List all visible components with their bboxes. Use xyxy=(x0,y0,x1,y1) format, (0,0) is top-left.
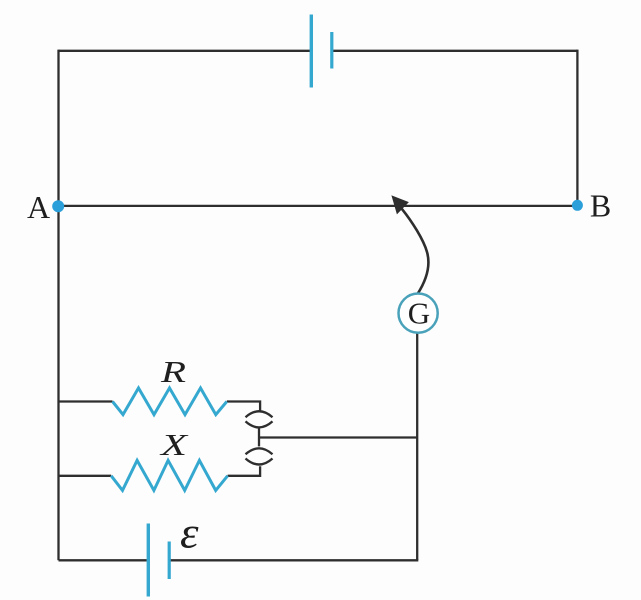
wire between keys K1-K2 xyxy=(258,428,260,446)
key K2 contact bottom arc xyxy=(246,459,273,465)
wire X branch left xyxy=(59,475,112,477)
battery top: short plate (-) xyxy=(330,32,333,69)
node A dot xyxy=(52,200,64,212)
key K1 contact top arc xyxy=(246,411,273,417)
battery top: long plate (+) xyxy=(310,15,313,88)
svg-text:B: B xyxy=(590,188,611,224)
wire bottom-right (battery to corner) xyxy=(171,559,419,561)
jockey wire curve xyxy=(402,209,429,294)
resistor X zigzag xyxy=(111,460,227,490)
battery E (bottom): long plate (+) xyxy=(147,524,150,597)
svg-text:A: A xyxy=(27,189,50,225)
galvanometer G circle xyxy=(399,294,438,333)
svg-text:G: G xyxy=(408,296,430,331)
battery E (bottom): short plate (-) xyxy=(168,542,171,580)
svg-text:ε: ε xyxy=(180,508,199,557)
wire left vertical (A branch down) xyxy=(57,50,59,561)
wire bottom-left (to battery) xyxy=(59,559,147,561)
wire right vertical (to B) xyxy=(576,50,578,201)
wire A-B potentiometer xyxy=(59,205,578,207)
node B dot xyxy=(572,200,583,211)
wire top-left (battery to corner) xyxy=(59,50,311,52)
wire middle node to galvanometer branch xyxy=(259,436,417,438)
svg-text:R: R xyxy=(160,354,186,389)
wire top-right (battery to corner) xyxy=(333,50,578,52)
wire X branch right xyxy=(228,466,261,476)
wire galvanometer down vertical xyxy=(416,333,418,561)
jockey arrowhead xyxy=(392,196,408,213)
wire R branch right xyxy=(227,402,260,411)
key K1 contact bottom arc xyxy=(246,421,273,427)
resistor R zigzag xyxy=(113,388,227,415)
wire R branch left xyxy=(59,400,113,402)
svg-text:X: X xyxy=(158,427,188,462)
key K2 contact top arc xyxy=(246,448,273,454)
